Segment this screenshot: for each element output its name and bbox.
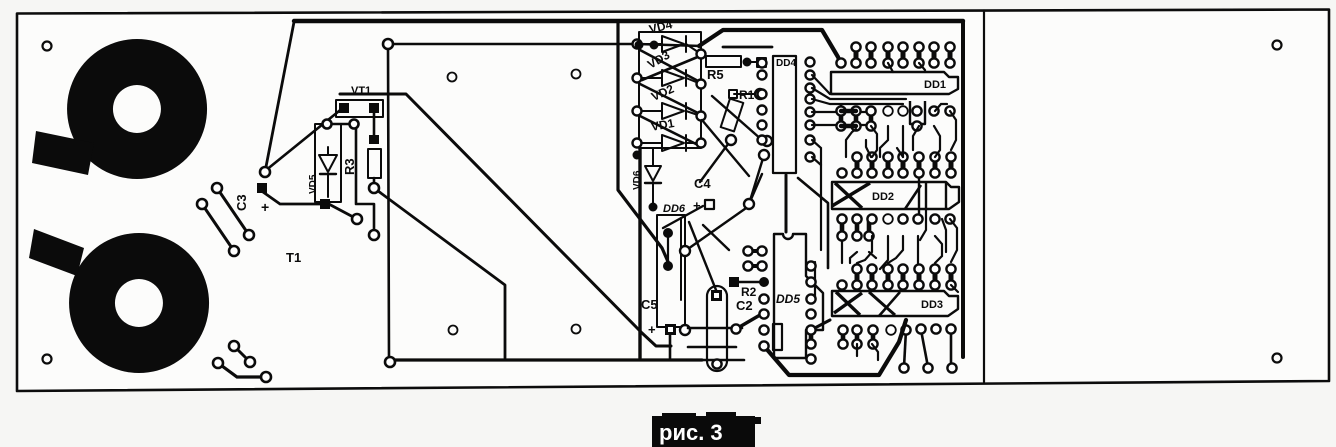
svg-text:R3: R3 bbox=[342, 158, 357, 175]
svg-text:C2: C2 bbox=[736, 298, 753, 313]
svg-text:R2: R2 bbox=[741, 285, 757, 299]
svg-text:C5: C5 bbox=[641, 297, 658, 312]
svg-text:+: + bbox=[261, 199, 269, 215]
svg-text:рис. 3: рис. 3 bbox=[659, 420, 723, 445]
svg-text:DD4: DD4 bbox=[776, 58, 796, 69]
svg-text:DD3: DD3 bbox=[921, 299, 943, 311]
svg-text:DD5: DD5 bbox=[776, 292, 800, 306]
svg-text:VD5: VD5 bbox=[308, 174, 319, 194]
svg-text:VD6: VD6 bbox=[632, 170, 643, 190]
svg-text:C3: C3 bbox=[234, 194, 249, 211]
svg-text:DD2: DD2 bbox=[872, 191, 894, 203]
svg-text:T1: T1 bbox=[286, 250, 301, 265]
svg-text:VT1: VT1 bbox=[351, 85, 371, 97]
svg-text:DD1: DD1 bbox=[924, 79, 946, 91]
svg-text:R1: R1 bbox=[739, 88, 755, 102]
svg-text:R5: R5 bbox=[707, 67, 724, 82]
svg-text:DD6: DD6 bbox=[663, 203, 686, 215]
svg-text:+: + bbox=[648, 322, 656, 337]
